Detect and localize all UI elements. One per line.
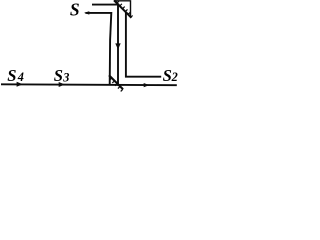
svg-text:S: S bbox=[70, 0, 80, 20]
svg-text:S: S bbox=[7, 66, 16, 85]
svg-text:3: 3 bbox=[62, 71, 69, 85]
svg-text:2: 2 bbox=[171, 70, 178, 84]
svg-text:4: 4 bbox=[17, 70, 24, 84]
svg-text:S: S bbox=[163, 66, 172, 85]
svg-text:S: S bbox=[54, 66, 63, 85]
